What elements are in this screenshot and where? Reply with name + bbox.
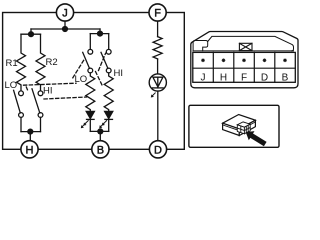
LED mid-left diode triangle [86, 111, 94, 118]
lamp LED triangle [153, 77, 163, 87]
svg-text:HI: HI [114, 68, 124, 79]
switch HI mid: bottom terminal [106, 68, 111, 73]
LED mid-left emission arrows [81, 121, 88, 129]
LED mid-right cathode bar [105, 118, 113, 120]
wire F drop [157, 21, 159, 37]
switch LO left: bottom terminal [19, 113, 24, 118]
wire mid-left LED to bus [89, 119, 91, 131]
connector pin grid [193, 52, 295, 82]
node circle F [149, 4, 166, 21]
inset box frame [189, 105, 279, 147]
inset connector front face [223, 123, 240, 135]
lamp LED circle [149, 74, 166, 91]
wire middle right leg [108, 34, 110, 50]
wire B drop [99, 131, 101, 140]
connector inner ledge line [193, 50, 293, 52]
switch HI left: bottom terminal [38, 113, 43, 118]
svg-text:J: J [62, 8, 68, 20]
wire right bus drop [99, 29, 101, 34]
wire mid-right LED to bus [108, 119, 110, 131]
wire LO left bottom leg [20, 117, 22, 131]
dashed link lower horizontal [44, 97, 87, 99]
switch LO left: blade [14, 90, 21, 113]
node left bus junction dot [28, 31, 34, 37]
node J junction dot [62, 26, 68, 32]
svg-text:B: B [282, 73, 289, 84]
resistor R1 [17, 34, 26, 91]
switch HI left: top terminal [38, 91, 43, 96]
connector keyway notch [193, 41, 208, 51]
wire H drop [29, 132, 31, 141]
switch HI mid: blade [101, 52, 108, 68]
resistor F branch [153, 37, 162, 59]
node left bottom junction dot [27, 129, 33, 135]
node mid bottom junction dot [97, 128, 103, 134]
wire left mini-bus [21, 33, 41, 35]
switch LO mid: bottom terminal [88, 68, 93, 73]
svg-text:H: H [220, 73, 227, 84]
node circle D [149, 141, 166, 158]
resistor mid-right [104, 73, 113, 112]
node circle H [21, 141, 38, 158]
wire lamp to D [157, 91, 159, 141]
svg-text:F: F [241, 73, 247, 84]
inset arrow [246, 131, 267, 146]
wire right mini-bus [90, 33, 108, 35]
connector cavity stars [202, 59, 287, 62]
dashed link upper horizontal [24, 83, 77, 85]
node circle B [92, 141, 109, 158]
svg-text:LO: LO [5, 80, 18, 91]
wire left pair bottom bus [21, 131, 41, 133]
wire HI left bottom leg [40, 117, 42, 131]
switch HI left: blade [32, 89, 40, 113]
inset connector side face [239, 120, 255, 135]
inset connector top face [223, 115, 256, 129]
inset connector lid rim [223, 122, 256, 131]
wire middle left leg [89, 34, 91, 50]
svg-text:R2: R2 [46, 57, 58, 68]
LED mid-left cathode bar [87, 118, 95, 120]
svg-text:D: D [154, 144, 162, 156]
wire left bus drop [30, 29, 32, 34]
dashed link diagonal right [96, 72, 103, 86]
wire mid bottom bus [90, 130, 108, 132]
wire J drop [64, 21, 66, 29]
connector pin letters [201, 73, 289, 84]
connector inner top line [208, 36, 294, 51]
svg-text:R1: R1 [6, 58, 18, 69]
resistor mid-left [86, 73, 95, 112]
connector face outline [191, 32, 298, 88]
switch LO mid: blade [83, 52, 90, 68]
resistor R2 [36, 34, 45, 91]
LED mid-right emission arrows [99, 121, 106, 129]
lamp LED cathode bar [152, 87, 163, 89]
dashed link blade to HI [99, 53, 106, 70]
lamp LED emission arrow [151, 93, 155, 98]
svg-text:B: B [97, 144, 104, 156]
connector bowtie symbol [239, 43, 252, 50]
LED mid-right diode triangle [105, 111, 113, 118]
dashed link short diagonal between left switches [26, 87, 28, 92]
dashed link diagonal left [73, 59, 85, 78]
svg-text:D: D [261, 73, 268, 84]
node circle J [56, 4, 73, 21]
svg-text:F: F [154, 8, 161, 20]
wire main bus [31, 28, 100, 30]
svg-text:J: J [201, 73, 206, 84]
node right bus junction dot [97, 30, 103, 36]
svg-text:H: H [26, 144, 34, 156]
outer border frame wire [3, 13, 185, 150]
inset connector plug detail [237, 122, 250, 134]
wire through lamp [157, 77, 159, 88]
switch LO mid: top terminal [88, 49, 93, 54]
svg-text:HI: HI [43, 85, 53, 96]
wire resistor to lamp [157, 59, 159, 77]
switch LO left: top terminal [19, 91, 24, 96]
switch HI mid: top terminal [106, 49, 111, 54]
